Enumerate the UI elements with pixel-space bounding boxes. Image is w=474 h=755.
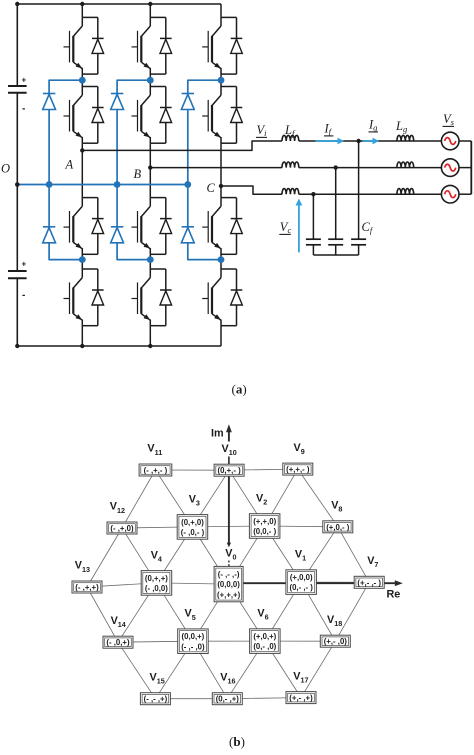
svg-text:(- ,0,+): (- ,0,+) xyxy=(106,638,130,647)
svg-text:(0,+,- ): (0,+,- ) xyxy=(218,466,242,475)
svg-text:C: C xyxy=(207,181,216,195)
svg-text:Re: Re xyxy=(387,589,401,601)
svg-text:O: O xyxy=(1,162,10,176)
svg-text:(- ,+,- ): (- ,+,- ) xyxy=(144,466,168,475)
svg-text:A: A xyxy=(65,157,74,171)
svg-text:(+,+,0): (+,+,0) xyxy=(253,517,276,526)
svg-text:(0,0,- ): (0,0,- ) xyxy=(253,527,276,536)
svg-text:(- ,0,0): (- ,0,0) xyxy=(145,584,168,593)
svg-text:(- ,+,+): (- ,+,+) xyxy=(75,583,99,592)
svg-text:(0,0,+): (0,0,+) xyxy=(182,632,205,641)
svg-text:(0,- ,- ): (0,- ,- ) xyxy=(290,583,314,592)
svg-text:(0,- ,0): (0,- ,0) xyxy=(253,642,276,651)
svg-text:(+,- ,+): (+,- ,+) xyxy=(289,694,313,703)
svg-text:+: + xyxy=(22,260,27,269)
svg-text:(- ,- ,-): (- ,- ,-) xyxy=(218,570,240,579)
svg-text:(+,- ,0): (+,- ,0) xyxy=(324,637,348,646)
svg-text:(+,0,+): (+,0,+) xyxy=(253,632,276,641)
svg-text:(- ,0,- ): (- ,0,- ) xyxy=(181,528,205,537)
svg-text:(+,+,- ): (+,+,- ) xyxy=(286,465,310,474)
svg-text:B: B xyxy=(134,167,142,181)
svg-text:-: - xyxy=(22,104,25,115)
svg-text:-: - xyxy=(22,290,25,301)
svg-text:(+,0,- ): (+,0,- ) xyxy=(326,523,350,532)
svg-text:+: + xyxy=(22,76,27,85)
svg-text:(+,- ,- ): (+,- ,- ) xyxy=(357,578,381,587)
svg-text:(- ,- ,+): (- ,- ,+) xyxy=(144,695,168,704)
svg-text:(a): (a) xyxy=(232,382,247,397)
svg-text:(0,0,0): (0,0,0) xyxy=(217,580,240,589)
svg-text:(+,+,+): (+,+,+) xyxy=(217,590,241,599)
svg-text:(- ,+,0): (- ,+,0) xyxy=(110,524,134,533)
svg-text:(- ,- ,0): (- ,- ,0) xyxy=(181,642,205,651)
svg-text:(0,+,+): (0,+,+) xyxy=(145,574,168,583)
svg-text:(b): (b) xyxy=(229,734,245,749)
svg-text:(+,0,0): (+,0,0) xyxy=(290,573,313,582)
svg-text:Im: Im xyxy=(211,428,224,440)
svg-text:(0,- ,+): (0,- ,+) xyxy=(216,695,240,704)
svg-text:(0,+,0): (0,+,0) xyxy=(181,518,204,527)
